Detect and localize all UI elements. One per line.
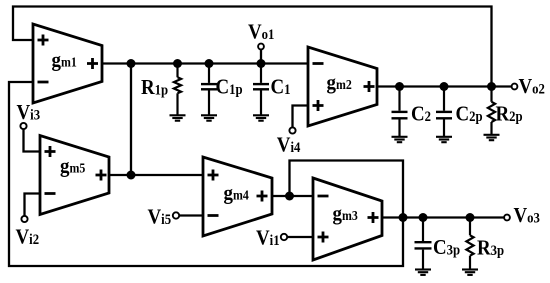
node R1p tap xyxy=(173,59,182,68)
wire Vi3 terminal to gm5 + input xyxy=(24,129,41,152)
wire feedback gm3 output via bottom rail to gm1 - input xyxy=(9,82,403,266)
svg-text:C2p: C2p xyxy=(456,102,484,125)
svg-text:C3p: C3p xyxy=(433,236,461,259)
svg-text:Vi1: Vi1 xyxy=(256,227,280,250)
terminal Vo3 xyxy=(504,215,510,221)
resistor R2p xyxy=(488,87,495,135)
wire Vi1 terminal to gm3 + input xyxy=(288,236,314,238)
ground xyxy=(392,137,408,142)
svg-text:C1p: C1p xyxy=(216,75,244,98)
svg-text:C2: C2 xyxy=(411,102,431,125)
node C1p tap xyxy=(205,59,214,68)
wire Vi5 terminal to gm4 - input xyxy=(180,214,204,216)
node C2 tap xyxy=(395,82,404,91)
svg-text:Vi5: Vi5 xyxy=(148,206,172,229)
ground xyxy=(170,115,186,120)
capacitor C2 xyxy=(392,87,408,137)
wire Vi4 terminal to gm2 + input xyxy=(293,106,309,128)
svg-text:Vi4: Vi4 xyxy=(277,133,301,156)
svg-text:gm3: gm3 xyxy=(333,202,358,225)
ground xyxy=(484,135,500,140)
ground xyxy=(201,115,217,120)
wire gm1 output to gm2 - input xyxy=(102,62,308,64)
node gm3 fb tap xyxy=(399,213,408,222)
ground xyxy=(436,137,452,142)
svg-text:gm4: gm4 xyxy=(224,181,250,204)
wire gm2 output to Vo2 terminal xyxy=(377,85,512,87)
wire feedback Vo2 node up and across top to gm1 + input xyxy=(13,7,492,87)
svg-text:gm1: gm1 xyxy=(52,48,77,71)
svg-text:Vo3: Vo3 xyxy=(514,204,541,227)
capacitor C1p xyxy=(201,64,217,116)
svg-text:R1p: R1p xyxy=(141,76,169,99)
capacitor C1 xyxy=(253,64,269,116)
svg-text:gm5: gm5 xyxy=(60,155,85,178)
svg-text:Vo1: Vo1 xyxy=(248,21,275,44)
svg-text:gm2: gm2 xyxy=(327,71,352,94)
ground xyxy=(253,115,269,120)
capacitor C3p xyxy=(415,218,432,270)
op-amp gm3 (OTA) xyxy=(313,178,382,260)
resistor R1p xyxy=(174,64,181,116)
svg-text:R2p: R2p xyxy=(496,103,524,126)
op-amp gm2 (OTA) xyxy=(308,47,377,126)
terminal Vi4 xyxy=(289,127,295,133)
wire node Vo1 vertical joining gm1 and gm5 outputs xyxy=(130,64,132,176)
wire gm3 output to Vo3 terminal xyxy=(382,216,504,218)
resistor R3p xyxy=(466,218,473,270)
terminal Vi3 xyxy=(20,123,26,129)
op-amp gm1 (OTA) xyxy=(33,24,102,103)
terminal Vi5 xyxy=(173,212,179,218)
terminal Vi2 xyxy=(21,216,27,222)
node gm1 out xyxy=(127,59,136,68)
svg-text:Vo2: Vo2 xyxy=(519,75,546,98)
ground xyxy=(415,270,431,275)
node gm4 out xyxy=(285,192,294,201)
node gm5 out xyxy=(127,171,136,180)
node C2p tap xyxy=(440,82,449,91)
terminal Vi1 xyxy=(281,234,287,240)
terminal Vo1 xyxy=(258,44,264,50)
capacitor C2p xyxy=(436,87,452,137)
wire gm5 output to gm4 + input xyxy=(109,174,203,176)
node C3p tap xyxy=(419,213,428,222)
svg-text:R3p: R3p xyxy=(477,236,505,259)
node R3p tap xyxy=(466,213,475,222)
node R2p tap xyxy=(487,82,496,91)
wire Vi2 terminal to gm5 - input xyxy=(25,194,41,217)
terminal Vo2 xyxy=(512,84,518,90)
wire gm4 output to gm3 - input xyxy=(272,195,313,197)
op-amp gm4 (OTA) xyxy=(203,157,272,236)
wire Vo1 terminal stem xyxy=(260,50,262,64)
ground xyxy=(462,270,478,275)
svg-text:Vi2: Vi2 xyxy=(16,225,40,248)
svg-text:Vi3: Vi3 xyxy=(17,101,41,124)
node Vo1 tap xyxy=(257,59,266,68)
op-amp gm5 (OTA) xyxy=(40,136,109,215)
svg-text:C1: C1 xyxy=(271,75,291,98)
